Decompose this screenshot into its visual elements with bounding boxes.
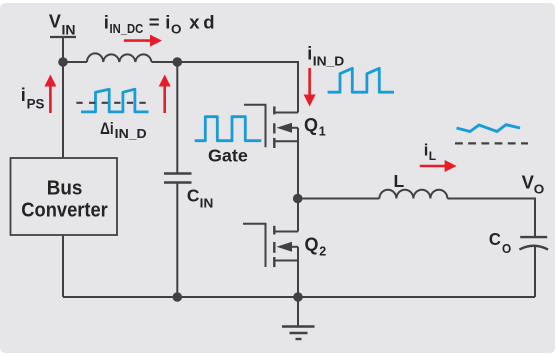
capacitor CO — [519, 237, 548, 249]
node B (CIN node) — [173, 57, 183, 67]
svg-text:i: i — [307, 44, 312, 64]
svg-text:IN: IN — [200, 196, 214, 211]
wire CO bottom — [534, 247, 536, 297]
waveform Gate (blue) — [195, 117, 262, 141]
terminal VIN bar — [50, 36, 76, 38]
node CIN-bottom — [173, 292, 183, 302]
dashed average line of iL — [455, 142, 528, 144]
wire top rail right — [152, 62, 299, 113]
wire CIN branch bottom — [176, 183, 178, 298]
node GND junction — [293, 292, 303, 302]
svg-text:PS: PS — [27, 97, 45, 112]
label CIN — [187, 186, 213, 211]
svg-text:Δi: Δi — [100, 119, 114, 138]
label Bus Converter — [21, 178, 108, 222]
capacitor CIN — [164, 174, 192, 183]
svg-text:IN: IN — [62, 23, 76, 38]
svg-text:L: L — [429, 149, 436, 163]
wire CIN branch top — [176, 62, 178, 174]
node A (VIN node) — [58, 57, 68, 67]
svg-text:1: 1 — [319, 124, 326, 138]
svg-text:2: 2 — [319, 244, 326, 258]
wire top rail left — [63, 61, 87, 63]
arrow node B current (red, up) — [159, 75, 171, 114]
wire box to bottom rail — [62, 235, 64, 297]
svg-text:i: i — [424, 141, 429, 159]
svg-text:i: i — [21, 85, 26, 105]
wire bottom rail — [63, 296, 535, 298]
svg-text:O: O — [171, 22, 182, 37]
inductor L — [379, 190, 447, 199]
waveform delta-iIN_D (blue) — [81, 89, 149, 112]
label iL — [424, 141, 436, 163]
svg-text:L: L — [394, 171, 405, 191]
transistor Q2 — [243, 199, 298, 298]
label iIN_D — [307, 44, 344, 69]
svg-text:IN_DC: IN_DC — [110, 21, 144, 36]
label iIN_DC = iO x d — [104, 12, 215, 37]
svg-text:O: O — [502, 241, 511, 256]
svg-text:Converter: Converter — [21, 199, 108, 221]
svg-text:IN_D: IN_D — [313, 53, 345, 68]
arrow iPS (red, up) — [44, 75, 56, 114]
wire left rail into box — [62, 62, 64, 158]
wire switch node to L — [298, 198, 379, 200]
box Bus Converter — [11, 158, 118, 235]
svg-text:V: V — [49, 11, 62, 32]
wire VIN to node A — [62, 37, 64, 62]
svg-text:Q: Q — [304, 114, 318, 135]
transistor Q1 — [244, 105, 298, 199]
label iPS — [21, 85, 45, 112]
svg-text:x: x — [189, 12, 200, 33]
waveform iL ripple (blue) — [457, 125, 521, 132]
label VO — [522, 172, 545, 197]
inductor input filter — [87, 53, 152, 62]
arrow iIN_D (red, down) — [304, 68, 316, 107]
svg-text:Bus: Bus — [47, 178, 83, 200]
label VIN — [49, 11, 76, 38]
svg-text:IN_D: IN_D — [115, 126, 147, 141]
svg-text:=: = — [149, 12, 160, 33]
arrow iL (red, right) — [420, 160, 457, 172]
label delta-iIN_D — [100, 119, 147, 141]
svg-text:C: C — [489, 229, 501, 249]
svg-text:i: i — [104, 12, 109, 33]
label Q2 — [305, 233, 327, 258]
svg-text:C: C — [187, 186, 200, 206]
arrow iIN_DC (red, right) — [124, 35, 162, 47]
svg-text:Gate: Gate — [208, 145, 248, 165]
svg-text:V: V — [522, 172, 535, 193]
wire L to VO — [447, 199, 535, 238]
node SW (switch node) — [293, 194, 303, 204]
svg-text:O: O — [534, 182, 545, 197]
waveform iIN_D (blue) — [328, 68, 394, 92]
ground — [282, 297, 315, 339]
label CO — [489, 229, 511, 256]
label Q1 — [304, 114, 326, 139]
dashed average line of delta-iIN_D — [76, 102, 151, 104]
svg-text:Q: Q — [305, 233, 319, 254]
svg-text:i: i — [165, 12, 170, 33]
svg-text:d: d — [203, 12, 214, 33]
